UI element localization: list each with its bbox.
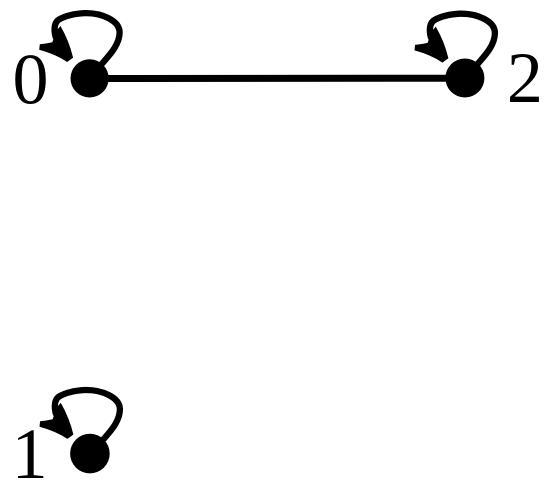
self-loop at node 1 [40,390,120,442]
svg-text:0: 0 [13,40,49,120]
node 0 [71,59,109,97]
self-loop at node 2 [415,14,495,66]
svg-text:2: 2 [507,38,543,118]
svg-text:1: 1 [12,414,48,494]
wire: edge 0-2 [90,75,465,82]
node 2 [445,59,484,98]
node 1 [70,434,110,474]
self-loop at node 0 [39,13,119,65]
